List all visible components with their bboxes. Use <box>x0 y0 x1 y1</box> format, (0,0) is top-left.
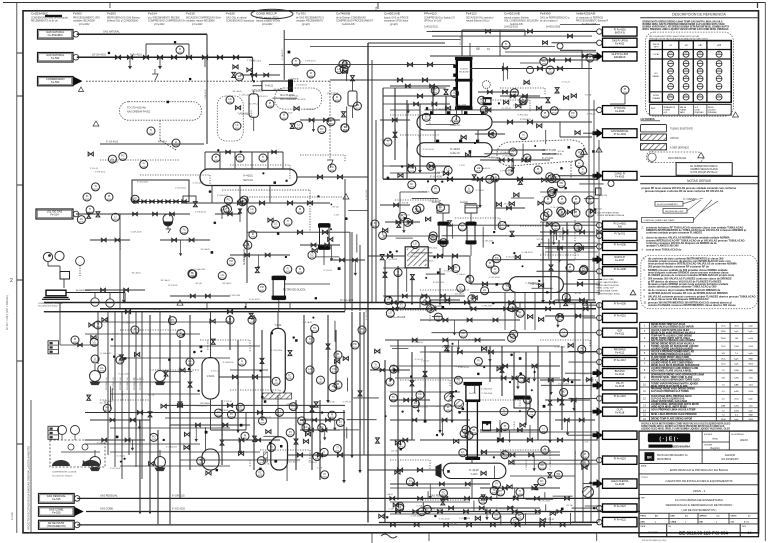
svg-text:2"-PR-41: 2"-PR-41 <box>224 401 233 403</box>
svg-text:2"-PR-41: 2"-PR-41 <box>523 83 532 85</box>
svg-text:1"-DR-4104: 1"-DR-4104 <box>131 232 143 234</box>
svg-text:3/4"-IA-41: 3/4"-IA-41 <box>289 461 299 464</box>
svg-text:1"-DR-4104: 1"-DR-4104 <box>271 350 283 352</box>
svg-text:PD: PD <box>152 436 156 439</box>
svg-text:3"-GC-4106: 3"-GC-4106 <box>423 149 435 151</box>
svg-text:40-06/96: 40-06/96 <box>648 530 659 534</box>
svg-text:LIQUIDO TORRE GAS RESID LIQUID: LIQUIDO TORRE GAS RESID LIQUIDO <box>651 347 693 350</box>
svg-text:3/4"-IA: 3/4"-IA <box>595 208 602 211</box>
svg-text:PI: PI <box>247 243 250 246</box>
svg-text:8"-GR-4105: 8"-GR-4105 <box>123 323 135 325</box>
svg-text:TI: TI <box>262 156 265 159</box>
svg-text:p/ Fe4102: p/ Fe4102 <box>192 24 203 26</box>
svg-text:TI: TI <box>522 134 525 137</box>
svg-text:VALVULA AGUA SEPARADOR TORRE O: VALVULA AGUA SEPARADOR TORRE OLEO <box>651 379 700 382</box>
svg-text:PI: PI <box>74 338 77 341</box>
svg-text:SAE: SAE <box>749 357 754 360</box>
svg-text:p/ Fe4102: p/ Fe4102 <box>154 24 165 26</box>
svg-text:GAS PROPANO RESID: GAS PROPANO RESID <box>597 212 620 215</box>
svg-text:FI: FI <box>589 56 592 59</box>
svg-text:FLANGES pressao de conexoes to: FLANGES pressao de conexoes tomadas INTE… <box>648 273 735 277</box>
svg-text:Fe-514: Fe-514 <box>50 213 59 217</box>
svg-text:PI: PI <box>230 413 233 416</box>
svg-text:3"-GC-4106: 3"-GC-4106 <box>550 459 552 470</box>
svg-text:NAFTA NAFTA PRESSAO AGUA BOMBA: NAFTA NAFTA PRESSAO AGUA BOMBA <box>651 339 695 342</box>
svg-text:P/ Fe-4113: P/ Fe-4113 <box>614 359 627 362</box>
svg-text:P/ Fe-4104: P/ Fe-4104 <box>614 133 627 136</box>
svg-text:P-4115: P-4115 <box>469 468 479 472</box>
svg-text:LI: LI <box>278 411 280 414</box>
svg-text:4"-GL-4102: 4"-GL-4102 <box>366 309 368 320</box>
svg-text:LI: LI <box>447 406 449 409</box>
svg-text:TRAVAM: TRAVAM <box>652 97 660 100</box>
svg-text:NIVEL INSTR OLEO NOTA FLARE: NIVEL INSTR OLEO NOTA FLARE <box>651 385 688 388</box>
svg-text:LC: LC <box>235 124 238 127</box>
svg-text:4"-GL-4102: 4"-GL-4102 <box>554 346 566 348</box>
svg-text:3"-GC-4106: 3"-GC-4106 <box>386 259 398 261</box>
svg-text:4"-GL-4102: 4"-GL-4102 <box>193 183 205 185</box>
svg-text:SEQUENCIAL UNID.: SEQUENCIAL UNID. <box>665 210 684 213</box>
svg-text:unidades RECEBIMENTO: unidades RECEBIMENTO <box>296 21 323 23</box>
svg-text:V.B.: V.B. <box>731 522 735 524</box>
svg-text:DES.: DES. <box>641 522 646 524</box>
svg-text:TI: TI <box>519 490 522 493</box>
svg-text:AGUA PROPANO LINHA VALVULA TEM: AGUA PROPANO LINHA VALVULA TEMP <box>651 409 696 412</box>
svg-text:10"-PR-41: 10"-PR-41 <box>249 104 259 106</box>
svg-text:6"-GA-41: 6"-GA-41 <box>417 504 426 507</box>
svg-text:2"-PR-41: 2"-PR-41 <box>429 201 438 203</box>
svg-text:de GAS RECEBIMENTO U: de GAS RECEBIMENTO U <box>296 17 324 20</box>
svg-text:TI: TI <box>505 43 508 46</box>
svg-text:8"-GR-4105: 8"-GR-4105 <box>520 119 532 121</box>
svg-text:FI: FI <box>299 268 302 271</box>
svg-text:ESCALA: ESCALA <box>704 433 713 436</box>
svg-text:PD: PD <box>578 152 582 155</box>
svg-text:16"-GA-4101: 16"-GA-4101 <box>92 54 107 57</box>
svg-text:+d-1010: +d-1010 <box>599 195 608 197</box>
svg-text:8"-GR-4105: 8"-GR-4105 <box>223 362 235 364</box>
svg-text:1"-DR-4104: 1"-DR-4104 <box>229 295 241 297</box>
svg-text:1200: 1200 <box>734 346 740 348</box>
svg-text:Ce740A/B: Ce740A/B <box>336 12 350 16</box>
svg-text:P/ Fe-4116: P/ Fe-4116 <box>614 395 627 398</box>
svg-text:GLP OLEO PROPANO GLP TORRE: GLP OLEO PROPANO GLP TORRE <box>651 390 689 393</box>
svg-text:TC: TC <box>320 426 324 429</box>
svg-text:3/4"-IA-41: 3/4"-IA-41 <box>232 90 242 93</box>
svg-text:TI: TI <box>382 234 385 237</box>
svg-text:GNL CONDENSADO SECAGEM: GNL CONDENSADO SECAGEM <box>504 20 538 23</box>
svg-text:10"-PR-41: 10"-PR-41 <box>385 410 387 420</box>
svg-text:unidades natural RECEBIM: unidades natural RECEBIM <box>186 20 215 23</box>
svg-text:PAINEL: PAINEL <box>653 75 661 78</box>
svg-text:LG: LG <box>554 225 557 228</box>
svg-text:No: No <box>669 526 671 528</box>
svg-text:natural Esferas GNL p/: natural Esferas GNL p/ <box>466 20 490 23</box>
svg-text:PI: PI <box>387 299 390 302</box>
svg-text:Fe-4112: Fe-4112 <box>615 352 625 355</box>
svg-text:DRENO DRENO LINHA DRENO NOTA: DRENO DRENO LINHA DRENO NOTA <box>651 359 692 362</box>
svg-text:natural propano Esferas: natural propano Esferas <box>504 17 530 20</box>
svg-text:PD: PD <box>353 343 357 346</box>
svg-text:Fe-4103: Fe-4103 <box>615 110 625 113</box>
svg-text:DESCRIPCION DE REFERENCIA: DESCRIPCION DE REFERENCIA <box>672 13 726 17</box>
svg-text:1"-DR-4104: 1"-DR-4104 <box>239 94 251 96</box>
svg-text:P/ Fe-4108: P/ Fe-4108 <box>614 268 627 271</box>
svg-text:2"-PR-4101: 2"-PR-4101 <box>502 156 514 158</box>
svg-text:6"-GA-4103: 6"-GA-4103 <box>481 388 493 391</box>
svg-text:LI: LI <box>468 187 470 190</box>
svg-text:PI: PI <box>575 198 578 201</box>
svg-text:No DE EQUIPAMENTO: No DE EQUIPAMENTO <box>657 203 678 206</box>
svg-text:3/4"-IA-41: 3/4"-IA-41 <box>149 380 152 390</box>
svg-text:LINHA PRESSAO AGUA: LINHA PRESSAO AGUA <box>597 293 621 296</box>
svg-text:4.: 4. <box>642 248 644 251</box>
svg-text:PD: PD <box>106 407 110 410</box>
svg-text:P/ Fe-4110: P/ Fe-4110 <box>614 315 627 318</box>
svg-text:P-4103: P-4103 <box>450 147 460 151</box>
svg-text:com p/ teste TUBULACAO de: com p/ teste TUBULACAO de <box>646 247 682 251</box>
svg-text:4"-GL-4102: 4"-GL-4102 <box>110 468 122 470</box>
svg-text:unidades SECAGEM: unidades SECAGEM <box>73 20 95 23</box>
svg-text:LC: LC <box>300 419 303 422</box>
svg-text:P/ Fe-4122: P/ Fe-4122 <box>614 519 627 522</box>
svg-text:TI: TI <box>336 447 339 450</box>
svg-text:LI: LI <box>180 332 182 335</box>
svg-text:Fe520: Fe520 <box>226 12 235 16</box>
svg-text:PD: PD <box>457 378 461 381</box>
svg-text:Fe-4107: Fe-4107 <box>615 259 625 262</box>
svg-text:TUBING EXISTENTE: TUBING EXISTENTE <box>670 128 693 131</box>
svg-text:10"-PR-41: 10"-PR-41 <box>514 420 516 430</box>
svg-text:PC: PC <box>121 155 125 158</box>
svg-text:FC: FC <box>320 128 324 131</box>
svg-text:PC: PC <box>292 405 296 408</box>
svg-text:PI: PI <box>337 353 340 356</box>
svg-text:unidade FLANGES 300 300: unidade FLANGES 300 300 <box>646 244 679 248</box>
svg-text:NAO DRENAR P/4102: NAO DRENAR P/4102 <box>127 111 151 114</box>
svg-text:2"-PR-4101: 2"-PR-4101 <box>251 90 263 92</box>
svg-text:3/4"-IA-41: 3/4"-IA-41 <box>160 279 170 282</box>
svg-text:3/4"-IA: 3/4"-IA <box>148 393 155 396</box>
svg-text:AGENOR: AGENOR <box>725 454 736 457</box>
svg-text:1"-DR-4104: 1"-DR-4104 <box>482 240 494 242</box>
svg-text:3"-GC-4106: 3"-GC-4106 <box>239 114 251 116</box>
svg-text:(TRATAMENTO): (TRATAMENTO) <box>47 524 66 528</box>
svg-text:SAE: SAE <box>734 384 739 387</box>
svg-text:3/4"-IA-41: 3/4"-IA-41 <box>135 420 138 430</box>
svg-text:FC: FC <box>414 402 418 405</box>
svg-text:V-4101: V-4101 <box>243 174 253 178</box>
svg-text:LI: LI <box>425 115 427 118</box>
svg-text:2"-PR-41: 2"-PR-41 <box>421 361 430 363</box>
svg-text:( AR DE INSTRUMENTOS ): ( AR DE INSTRUMENTOS ) <box>682 508 717 512</box>
svg-text:PI: PI <box>275 380 278 383</box>
svg-text:TI: TI <box>397 271 400 274</box>
svg-text:Ce4101-A/B: Ce4101-A/B <box>342 23 355 26</box>
svg-text:3/4"-IA: 3/4"-IA <box>575 292 582 295</box>
svg-text:3/4"-IA: 3/4"-IA <box>566 504 573 507</box>
svg-text:A-4102: A-4102 <box>11 512 14 520</box>
svg-text:COMPRESSAO PROCESSAMENT: COMPRESSAO PROCESSAMENT <box>336 20 373 23</box>
svg-text:Ce4101A/B: Ce4101A/B <box>504 12 520 16</box>
svg-text:4"-GL-4102: 4"-GL-4102 <box>540 501 552 503</box>
svg-text:PPe4110: PPe4110 <box>424 12 437 16</box>
svg-text:NIVEL PRESSAO LINHA LIQUIDO VA: NIVEL PRESSAO LINHA LIQUIDO VAPOR VAPOR … <box>643 28 729 31</box>
svg-text:A SER DEFINIDO: A SER DEFINIDO <box>670 147 689 150</box>
svg-text:TC: TC <box>495 257 499 260</box>
svg-text:LOCAL: LOCAL <box>653 53 660 56</box>
svg-text:PROJETO EXECUTIVO REV.1A EMISS: PROJETO EXECUTIVO REV.1A EMISSAO ORIGINA… <box>28 446 31 530</box>
svg-text:8"-GR-4105: 8"-GR-4105 <box>360 419 362 430</box>
svg-text:FI: FI <box>584 461 587 464</box>
svg-text:3/4"-IA-41: 3/4"-IA-41 <box>100 401 110 404</box>
svg-text:PD: PD <box>491 132 495 135</box>
svg-text:PI: PI <box>289 431 292 434</box>
svg-text:6"-GA-4103: 6"-GA-4103 <box>166 445 178 448</box>
svg-text:REFRIGERACAO GAS Esferas: REFRIGERACAO GAS Esferas <box>107 17 141 20</box>
svg-text:PI: PI <box>561 198 564 201</box>
svg-text:GAS NATURAL: GAS NATURAL <box>103 31 120 34</box>
svg-text:TI: TI <box>503 410 506 413</box>
svg-text:2"-PR-4101: 2"-PR-4101 <box>190 369 192 380</box>
svg-text:P/ Fe-4109: P/ Fe-4109 <box>614 302 627 305</box>
svg-text:ANEXO: ANEXO <box>740 439 748 442</box>
svg-text:TC: TC <box>288 375 292 378</box>
svg-text:FC: FC <box>513 91 517 94</box>
svg-text:Fe-520: Fe-520 <box>52 510 61 514</box>
svg-text:PRESSAO: PRESSAO <box>694 111 704 114</box>
svg-text:VASO NOTA NIVEL INSTR RESID: VASO NOTA NIVEL INSTR RESID <box>651 406 687 409</box>
svg-text:1200: 1200 <box>734 410 740 412</box>
svg-text:PI: PI <box>226 207 229 210</box>
svg-text:LC: LC <box>453 92 456 95</box>
svg-text:3/4"-IA-41: 3/4"-IA-41 <box>222 282 232 285</box>
svg-text:PI: PI <box>331 413 334 416</box>
svg-text:PI: PI <box>269 102 272 105</box>
svg-text:4"-GL-41: 4"-GL-41 <box>211 371 220 373</box>
svg-text:m3/h: m3/h <box>748 338 754 340</box>
svg-text:2"-PR-4101: 2"-PR-4101 <box>305 61 317 63</box>
svg-text:P/ Fe-4106: P/ Fe-4106 <box>614 244 627 247</box>
svg-text:2"-PR-4101: 2"-PR-4101 <box>419 129 421 140</box>
svg-text:2900: 2900 <box>748 364 754 366</box>
svg-text:Fe-4118: Fe-4118 <box>615 411 625 414</box>
svg-text:VALVULA AGUA INSTR BOMBA COND: VALVULA AGUA INSTR BOMBA COND VASO VALVU… <box>641 423 731 426</box>
svg-text:LG: LG <box>274 223 277 226</box>
svg-text:sistema FLANGES conexoes INSTR: sistema FLANGES conexoes INSTRUMENTOS cl… <box>648 303 736 307</box>
svg-text:2"-PR-4101: 2"-PR-4101 <box>257 96 269 98</box>
svg-text:3/4"-IA-41: 3/4"-IA-41 <box>121 390 124 400</box>
svg-text:2"-PR-4101: 2"-PR-4101 <box>133 379 145 381</box>
svg-text:TC: TC <box>576 245 580 248</box>
svg-text:TORRE SEPARADOR AGUA: TORRE SEPARADOR AGUA <box>597 214 625 217</box>
svg-text:COMPRESSOR Ce4301B: COMPRESSOR Ce4301B <box>52 472 77 474</box>
svg-text:PI: PI <box>455 267 458 270</box>
svg-text:8"-GR-4105: 8"-GR-4105 <box>304 109 316 111</box>
svg-text:6"-GA-4103: 6"-GA-4103 <box>588 229 591 240</box>
svg-text:m3/h: m3/h <box>734 391 740 393</box>
svg-text:3/4"-IA-41: 3/4"-IA-41 <box>273 88 283 91</box>
svg-text:PROCESSAMENTO UPG: PROCESSAMENTO UPG <box>73 17 100 20</box>
svg-text:Ce-553A/B/C: Ce-553A/B/C <box>48 33 63 37</box>
svg-text:FI: FI <box>409 480 412 483</box>
svg-text:REF:: REF: <box>641 497 646 499</box>
svg-text:3/4"-IA: 3/4"-IA <box>537 238 544 241</box>
svg-text:2900: 2900 <box>721 419 727 421</box>
svg-text:2900: 2900 <box>721 331 727 333</box>
svg-text:Fe-503: Fe-503 <box>51 80 60 84</box>
svg-text:COMPRESSAO COMPRESSAO Es: COMPRESSAO COMPRESSAO Es <box>148 20 186 23</box>
svg-text:Fe4101: Fe4101 <box>265 85 274 88</box>
svg-text:LC: LC <box>461 451 464 454</box>
svg-text:2"-PR-4101: 2"-PR-4101 <box>525 283 537 285</box>
svg-text:SAE: SAE <box>749 369 754 372</box>
svg-text:PI: PI <box>584 453 587 456</box>
svg-text:FI: FI <box>469 278 472 281</box>
svg-text:APROV.: APROV. <box>700 515 708 518</box>
svg-text:4"-GL-41: 4"-GL-41 <box>226 320 235 322</box>
svg-text:TC: TC <box>513 520 517 523</box>
svg-text:FC: FC <box>540 480 544 483</box>
svg-text:PROJ.: PROJ. <box>641 516 647 518</box>
svg-text:PI: PI <box>215 156 218 159</box>
svg-text:TI: TI <box>582 168 585 171</box>
svg-text:10"-PR-41: 10"-PR-41 <box>120 240 122 250</box>
svg-text:PI: PI <box>489 262 492 265</box>
svg-text:PD: PD <box>133 197 137 200</box>
svg-text:3.: 3. <box>642 237 644 240</box>
svg-text:AREA:: AREA: <box>641 464 647 467</box>
svg-text:1"-DR-4104: 1"-DR-4104 <box>526 459 528 470</box>
svg-text:Fe502: Fe502 <box>73 12 82 16</box>
svg-text:(NOTA 3): (NOTA 3) <box>615 31 625 34</box>
svg-text:TC: TC <box>392 396 396 399</box>
svg-text:TC: TC <box>315 455 319 458</box>
svg-text:4"-GL-41: 4"-GL-41 <box>580 373 589 375</box>
svg-text:2"-PR-4101: 2"-PR-4101 <box>482 306 494 308</box>
svg-text:DESIDRATACAO E REFRIGERACAO DE: DESIDRATACAO E REFRIGERACAO DE PROPANO <box>666 503 733 507</box>
svg-text:3/4"-IA: 3/4"-IA <box>508 506 515 509</box>
svg-text:8"-GR-4105: 8"-GR-4105 <box>281 113 293 115</box>
svg-text:1"-DR-4104: 1"-DR-4104 <box>195 211 207 213</box>
svg-text:8"-GR-4105: 8"-GR-4105 <box>197 309 209 311</box>
svg-text:10"-PR-41: 10"-PR-41 <box>219 410 229 412</box>
svg-text:PI: PI <box>499 490 502 493</box>
svg-text:FC: FC <box>541 464 545 467</box>
svg-text:2"-PR-41: 2"-PR-41 <box>247 60 256 62</box>
svg-text:TC: TC <box>576 225 580 228</box>
svg-text:PETROLEO BRASILEIRO SA: PETROLEO BRASILEIRO SA <box>657 454 688 457</box>
svg-text:1"-DR: 1"-DR <box>317 468 323 470</box>
svg-text:COND GAS PROPANO: COND GAS PROPANO <box>597 281 619 284</box>
svg-text:6"-GA-41: 6"-GA-41 <box>457 273 466 276</box>
svg-text:LC: LC <box>477 167 480 170</box>
svg-text:LC: LC <box>80 218 83 221</box>
svg-text:4"-GL-41: 4"-GL-41 <box>324 270 333 272</box>
svg-text:SECAGEM GNL natural p/: SECAGEM GNL natural p/ <box>466 17 494 20</box>
svg-text:NO: NO <box>655 73 658 75</box>
svg-text:LI: LI <box>494 268 496 271</box>
svg-text:NOTAS GERAIS: NOTAS GERAIS <box>687 179 711 183</box>
svg-text:PT: PT <box>238 156 242 159</box>
svg-text:NIVEL LINHA PROPANO OLEO PROPA: NIVEL LINHA PROPANO OLEO PROPANO <box>651 413 697 416</box>
svg-text:3/4"-IA: 3/4"-IA <box>111 161 118 164</box>
svg-text:8"-GR-4105: 8"-GR-4105 <box>419 191 431 193</box>
svg-text:TI: TI <box>260 459 263 462</box>
svg-text:FI: FI <box>332 386 335 389</box>
svg-text:FC: FC <box>565 296 569 299</box>
svg-text:p/ Fe4102: p/ Fe4102 <box>262 24 273 26</box>
svg-text:2"-PR-4101: 2"-PR-4101 <box>423 261 435 263</box>
svg-text:LSH: LSH <box>511 150 516 153</box>
svg-text:6"-GA-41: 6"-GA-41 <box>434 171 443 174</box>
svg-text:No DESENHO: No DESENHO <box>731 434 744 436</box>
svg-text:PD: PD <box>356 104 360 107</box>
svg-text:LC: LC <box>501 224 504 227</box>
svg-text:3"-GC-4106: 3"-GC-4106 <box>204 466 216 468</box>
svg-text:4"-GL-4102: 4"-GL-4102 <box>383 119 385 130</box>
svg-text:LI: LI <box>323 451 325 454</box>
svg-text:1"-DR-4104: 1"-DR-4104 <box>108 369 110 380</box>
svg-text:CONDENSADO separacao: CONDENSADO separacao <box>226 20 255 23</box>
svg-text:Reg/proj: Reg/proj <box>710 447 720 450</box>
svg-text:2900: 2900 <box>721 338 727 340</box>
svg-text:P/ Fe-4121: P/ Fe-4121 <box>614 505 627 508</box>
svg-text:D-720.103-QP-257 Rev.2: D-720.103-QP-257 Rev.2 <box>691 171 719 174</box>
svg-text:DES.: DES. <box>671 516 676 518</box>
svg-text:s/esc: s/esc <box>712 438 718 441</box>
svg-text:TI: TI <box>344 126 347 129</box>
svg-text:PI: PI <box>519 311 522 314</box>
svg-text:PI: PI <box>323 473 326 476</box>
svg-text:Ce4102-0101: Ce4102-0101 <box>424 27 439 29</box>
svg-text:Fe4111: Fe4111 <box>469 393 477 395</box>
svg-text:8"-GL-4106: 8"-GL-4106 <box>430 177 443 179</box>
svg-text:GAS GNL p/ natural: GAS GNL p/ natural <box>226 17 247 20</box>
svg-text:10"-PR-41: 10"-PR-41 <box>168 285 178 287</box>
svg-text:10"-PR-41: 10"-PR-41 <box>545 519 555 521</box>
svg-text:PROPANO: PROPANO <box>200 402 211 405</box>
svg-text:3/4"-IA-41: 3/4"-IA-41 <box>131 271 141 274</box>
svg-text:2"-PR-4101: 2"-PR-4101 <box>430 406 442 408</box>
svg-text:LC: LC <box>554 176 557 179</box>
svg-text:LG: LG <box>339 421 342 424</box>
svg-text:FLUXOGRAMA DE ENGENHARIA: FLUXOGRAMA DE ENGENHARIA <box>675 498 724 502</box>
svg-text:PC: PC <box>401 215 405 218</box>
svg-text:Fe/Re-51: Fe/Re-51 <box>450 125 460 127</box>
svg-text:FI: FI <box>495 483 498 486</box>
svg-text:6"-GA-4103: 6"-GA-4103 <box>479 167 491 170</box>
svg-text:PC: PC <box>480 99 484 102</box>
svg-text:1200: 1200 <box>734 405 740 407</box>
svg-text:PC: PC <box>330 166 334 169</box>
svg-text:LC: LC <box>111 157 114 160</box>
svg-text:LI: LI <box>330 120 332 123</box>
svg-text:VeBe4201A/B: VeBe4201A/B <box>576 12 595 16</box>
svg-text:1"-DR: 1"-DR <box>583 442 589 444</box>
svg-text:Fe-4114: Fe-4114 <box>615 373 625 376</box>
svg-text:p/ Fe4102: p/ Fe4102 <box>79 24 90 26</box>
svg-text:FC: FC <box>542 60 546 63</box>
svg-text:DRENO TEMP FLARE DRENO VAPOR: DRENO TEMP FLARE DRENO VAPOR <box>651 417 692 420</box>
svg-text:1"-DR-4104: 1"-DR-4104 <box>296 85 308 87</box>
svg-text:TI: TI <box>150 129 153 132</box>
svg-text:8"-GR-4105: 8"-GR-4105 <box>296 429 298 440</box>
svg-text:PI: PI <box>549 68 552 71</box>
svg-text:PD: PD <box>406 221 410 224</box>
svg-text:PC: PC <box>553 109 557 112</box>
svg-text:TI: TI <box>361 328 364 331</box>
